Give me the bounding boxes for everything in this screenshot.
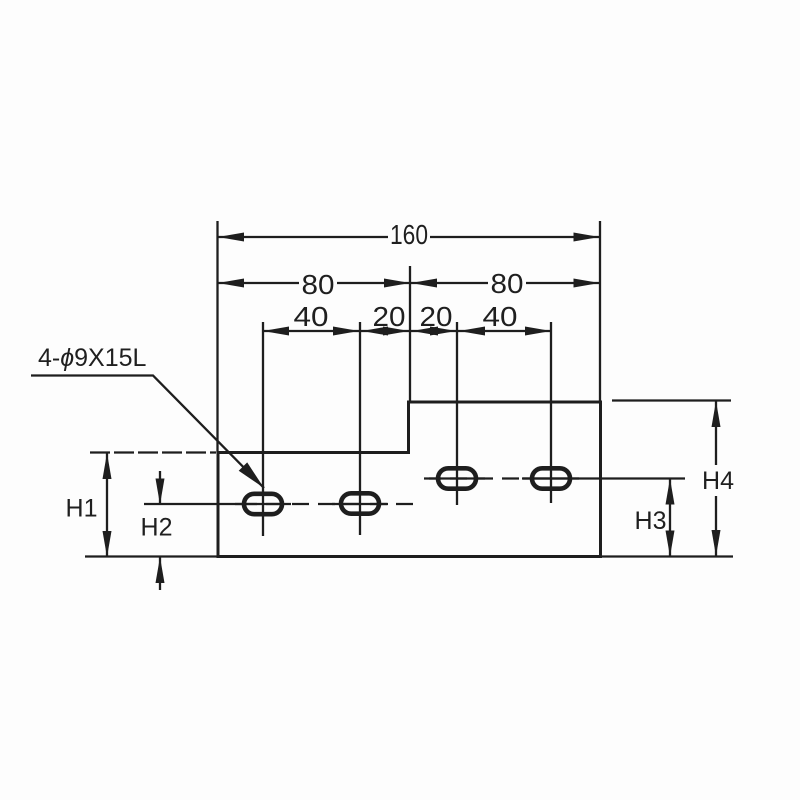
svg-text:80: 80: [491, 268, 524, 299]
plate outline (stepped part): [218, 402, 601, 557]
arrowhead H3 top: [666, 479, 675, 505]
arrowhead H3 bottom: [666, 531, 675, 557]
svg-text:40: 40: [483, 301, 518, 332]
extension line left (x=218): [216, 221, 218, 453]
extension line bottom right (y=556.5): [601, 555, 734, 557]
arrowhead leader: [239, 462, 264, 488]
arrowhead 20 left-at-360: [362, 327, 388, 336]
hole 2 cross line: [332, 503, 388, 505]
svg-text:20: 20: [420, 301, 453, 332]
extension line hole2 (x=360): [359, 322, 361, 535]
arrowhead 20 right-at-410: [383, 327, 409, 336]
dimension line H1 (x=107): [106, 453, 108, 557]
extension line hole3 (x=457): [456, 322, 458, 505]
dimension line H3 (x=670): [669, 479, 671, 557]
extension line bottom left (y=556.5): [85, 555, 218, 557]
centerline right holes (y=478.5): [424, 477, 522, 479]
dimension line 160: [218, 236, 388, 238]
arrowhead 40 right-to-360: [333, 327, 359, 336]
arrowhead 40 left-at-459: [459, 327, 485, 336]
slotted hole 1: [244, 494, 282, 514]
arrowhead 20 left-at-412: [412, 327, 438, 336]
arrowhead H1 bottom: [103, 531, 112, 557]
svg-text:4-ϕ9X15L: 4-ϕ9X15L: [38, 344, 147, 372]
slotted hole 2: [341, 493, 379, 513]
leader line for hole note: [31, 376, 264, 489]
hole 1 cross line: [235, 503, 291, 505]
dimension line 80-80: [218, 282, 299, 284]
arrowhead 80 left: [218, 279, 244, 288]
arrowhead 80 center-right: [411, 279, 437, 288]
extension line center (x=410): [409, 266, 411, 402]
arrowhead 160 left: [218, 233, 244, 242]
arrowhead 80 right: [574, 279, 600, 288]
svg-text:H1: H1: [66, 495, 98, 523]
svg-text:H3: H3: [635, 507, 667, 535]
arrowhead H1 top: [103, 453, 112, 479]
extension line right (x=600): [599, 221, 601, 402]
hole 4 cross line: [523, 477, 579, 479]
arrowhead H4 top: [712, 401, 721, 427]
arrowhead H2 bottom (points up): [156, 557, 165, 583]
arrowhead H4 bottom: [712, 530, 721, 556]
extension line hole4 (x=551): [550, 322, 552, 503]
slotted hole 4: [532, 468, 570, 488]
centerline left holes (y=504): [144, 503, 240, 505]
dimension line H2 (x=160): [159, 471, 161, 504]
svg-text:20: 20: [373, 301, 406, 332]
svg-text:H2: H2: [141, 514, 173, 542]
extension line hole1 (x=263): [262, 322, 264, 536]
svg-text:H4: H4: [702, 467, 734, 495]
arrowhead 160 right: [574, 233, 600, 242]
svg-text:40: 40: [294, 301, 329, 332]
arrowhead 40 right end: [525, 327, 551, 336]
svg-text:80: 80: [302, 269, 335, 300]
dimension line H4 (x=716): [715, 401, 717, 465]
arrowhead 20 right-at-457: [430, 327, 456, 336]
svg-text:160: 160: [390, 219, 428, 250]
arrowhead 40 left end: [263, 327, 289, 336]
extension line H4 top (y=400.5): [612, 399, 731, 401]
slotted hole 3: [438, 468, 476, 488]
dimension line 40-20-20-40: [263, 330, 551, 332]
arrowhead H2 top (points down): [156, 479, 165, 505]
arrowhead 80 center-left: [384, 279, 410, 288]
extension line H1 top (y=452.5 dashed): [90, 451, 216, 453]
hole 3 cross line: [429, 477, 485, 479]
